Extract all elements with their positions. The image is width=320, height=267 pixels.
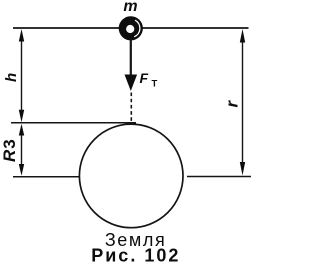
svg-text:Рис. 102: Рис. 102 xyxy=(91,246,180,266)
wire surface tick line xyxy=(11,122,136,124)
earth circle xyxy=(79,124,183,228)
svg-text:r: r xyxy=(223,100,242,108)
svg-text:F: F xyxy=(140,70,149,86)
dimension h arrow xyxy=(19,29,24,122)
dimension R3 arrow xyxy=(19,124,24,176)
dimension r arrow xyxy=(240,29,245,176)
svg-text:m: m xyxy=(123,0,137,15)
svg-text:h: h xyxy=(3,73,20,82)
wire center level right xyxy=(187,176,251,178)
ball mass m xyxy=(119,16,143,40)
wire top reference line xyxy=(13,27,249,29)
svg-text:R3: R3 xyxy=(0,139,19,162)
force arrow F_T xyxy=(125,39,138,91)
wire center level left xyxy=(13,176,80,178)
svg-text:Т: Т xyxy=(152,79,158,90)
dashed line node xyxy=(130,93,132,124)
